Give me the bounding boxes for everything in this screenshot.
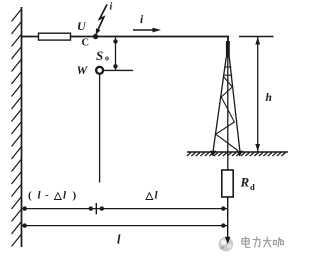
lightning stroke arrow (surge current i): [98, 5, 107, 31]
svg-text:(: (: [28, 190, 32, 202]
svg-text:R: R: [240, 175, 250, 190]
tower left leg: [213, 58, 226, 153]
wire: overhead line conductor: [22, 36, 229, 38]
wall hatching: [12, 9, 22, 247]
dimension line (l - dl) and dl: [22, 208, 228, 210]
wire: lead below Rd with end arrow: [227, 197, 229, 239]
svg-text:h: h: [266, 92, 272, 104]
svg-text:U: U: [77, 19, 87, 33]
tower center line / grounding conductor: [227, 58, 229, 171]
svg-text:-: -: [45, 189, 49, 201]
svg-text:S: S: [96, 48, 103, 63]
tower lattice bracing: [216, 76, 238, 150]
S0 gap dimension line: [115, 38, 117, 71]
ground (earth line with hatching): [187, 151, 288, 153]
svg-text:l: l: [117, 233, 121, 247]
svg-text:W: W: [77, 63, 89, 77]
current arrow i on line: [133, 29, 155, 31]
tower right leg: [229, 58, 240, 153]
wire: lead below W: [99, 74, 101, 183]
watermark logo: [219, 237, 234, 252]
wall: [21, 7, 23, 247]
char da: [263, 237, 272, 248]
svg-text:o: o: [105, 54, 109, 63]
svg-text:d: d: [250, 182, 255, 192]
resistor (series, unlabeled): [39, 33, 71, 40]
svg-text:i: i: [110, 2, 113, 13]
watermark text "dian li da ka" drawn strokes: [242, 237, 283, 248]
dimension line l: [22, 225, 228, 227]
tick separating (l-dl) and dl: [95, 203, 97, 214]
svg-text:△: △: [145, 191, 154, 202]
resistor Rd (tower footing resistance): [222, 170, 233, 197]
svg-text:): ): [73, 190, 77, 202]
svg-text:C: C: [82, 38, 90, 49]
insulator string (black bar): [226, 41, 230, 58]
tower foot arrow right: [236, 151, 243, 157]
svg-text:△: △: [53, 191, 62, 202]
electrode line of gap: [104, 69, 133, 71]
h dimension line: [257, 37, 259, 152]
h dimension top reference line: [239, 36, 274, 38]
tower foot arrow left: [210, 151, 216, 157]
tower rung 1: [224, 66, 231, 68]
char li: [253, 237, 261, 248]
device W (circle terminal): [96, 67, 103, 74]
char dian: [242, 237, 251, 248]
node C (junction dot): [93, 34, 98, 39]
char ka: [274, 237, 284, 247]
tower rung 2: [223, 74, 232, 76]
wire: drop to insulator at tower top: [227, 37, 229, 43]
